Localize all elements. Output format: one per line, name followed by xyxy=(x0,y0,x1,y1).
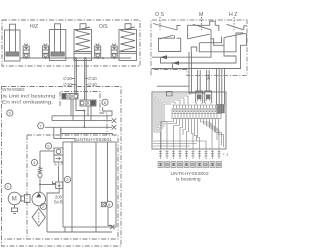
junction dots xyxy=(25,57,115,59)
svg-text:∅10: ∅10 xyxy=(63,76,72,81)
arrow A2 xyxy=(172,61,179,65)
enclosure control cabinet (electrical) xyxy=(151,20,247,75)
circle 9 xyxy=(7,110,13,116)
svg-text:4: 4 xyxy=(33,160,36,165)
pipe cylinder bus line xyxy=(20,57,131,59)
terminal dots xyxy=(173,111,219,112)
circle 1 xyxy=(5,183,11,189)
suction filter xyxy=(32,209,45,227)
svg-text:6: 6 xyxy=(108,202,111,207)
svg-text:UNTKHY093801: UNTKHY093801 xyxy=(76,137,112,142)
svg-text:9: 9 xyxy=(9,111,12,116)
tank line xyxy=(47,231,112,233)
svg-text:5: 5 xyxy=(47,144,50,149)
enclosure casing xyxy=(4,135,118,239)
pipe drain line xyxy=(61,134,113,136)
svg-text:H/Z: H/Z xyxy=(30,24,38,30)
valve group border step xyxy=(60,92,107,136)
enclosure cylinders box H/Z O/S xyxy=(2,20,140,66)
connector sockets row xyxy=(158,162,222,168)
svg-text:Is Unit incl besturing: Is Unit incl besturing xyxy=(2,93,56,98)
svg-text:M: M xyxy=(12,197,17,203)
pipes inside manifold xyxy=(72,142,112,232)
terminal pins top xyxy=(172,105,219,109)
switch S6 row2 xyxy=(224,34,243,38)
flow control valve V3 xyxy=(95,44,101,58)
terminal strip xyxy=(172,109,221,119)
svg-text:8: 8 xyxy=(104,100,107,105)
cylinder C3 spring return xyxy=(74,24,92,61)
cable loops inside box xyxy=(154,94,191,149)
terminal cells xyxy=(175,109,217,119)
pipe work line 1 xyxy=(52,115,112,117)
cartridge valve item5 xyxy=(54,148,63,182)
svg-text:BAR: BAR xyxy=(54,200,63,205)
wire across relay tops xyxy=(189,92,205,94)
circle 3 xyxy=(64,176,70,182)
manifold block 093801 xyxy=(63,142,116,227)
flow control valve V4 xyxy=(111,44,117,58)
cable gland xyxy=(167,92,173,96)
svg-text:∅10: ∅10 xyxy=(88,76,97,81)
circle 6 xyxy=(106,201,112,207)
svg-text:UNTKHY093802: UNTKHY093802 xyxy=(171,171,209,177)
plug item6 xyxy=(101,202,106,207)
svg-text:1: 1 xyxy=(7,184,10,189)
connector pins row xyxy=(159,150,221,159)
flow control valve V2 xyxy=(43,44,49,58)
pipe line 3 with coupling xyxy=(45,126,112,128)
drain under motor xyxy=(12,205,18,214)
svg-text:O/S: O/S xyxy=(99,24,108,30)
circle 7 xyxy=(38,123,44,129)
switch S5 row2 xyxy=(188,34,210,39)
coupling xyxy=(21,196,25,201)
solenoid valve B xyxy=(80,100,96,106)
circle 4 xyxy=(31,159,37,165)
pipe work line 2 with coupling xyxy=(52,120,112,122)
svg-text:+ 1: + 1 xyxy=(223,152,229,157)
check valve xyxy=(38,151,42,192)
pipes valves to manifold xyxy=(71,99,112,127)
svg-text:2: 2 xyxy=(42,204,45,209)
svg-text:UNTKHY093803: UNTKHY093803 xyxy=(2,87,25,92)
pump xyxy=(32,192,46,207)
relief valve item3 xyxy=(47,181,63,232)
cylinder C1 xyxy=(5,24,21,61)
pipe pump to item5 xyxy=(40,150,54,152)
switch S4 row2 xyxy=(160,35,174,39)
wiring below strip xyxy=(153,119,224,150)
strip right end block xyxy=(217,105,225,114)
svg-text:3: 3 xyxy=(66,177,69,182)
switch S3 (H Z row1) xyxy=(227,24,247,30)
switch S2 (M row1) xyxy=(193,24,211,30)
relay plug K2 xyxy=(205,91,212,105)
cylinder C2 xyxy=(49,24,65,61)
pipe elbow left xyxy=(51,116,53,121)
cable down to junction box xyxy=(189,52,225,105)
cable wire into box left xyxy=(157,85,189,87)
arrow A1 xyxy=(160,55,167,59)
svg-text:En incl omkasting.: En incl omkasting. xyxy=(2,100,53,105)
svg-text:Is besturing: Is besturing xyxy=(176,176,201,182)
wires control web xyxy=(152,21,247,68)
motor M xyxy=(8,192,21,205)
labels dia 10 xyxy=(63,76,97,87)
enclosure power unit 093803 xyxy=(2,87,122,247)
circle 8 xyxy=(102,99,108,105)
leader dashes below labels xyxy=(160,17,234,30)
cylinder C4 spring return xyxy=(119,24,137,61)
flow control valve V1 xyxy=(23,44,29,58)
pipe to relief xyxy=(40,184,56,186)
pipes down to power unit xyxy=(74,58,76,94)
switch S1 (O S row1) xyxy=(153,24,181,31)
svg-text:7: 7 xyxy=(40,123,43,128)
relay plug K1 xyxy=(196,91,203,105)
circle 5 xyxy=(45,143,51,149)
solenoid valve A xyxy=(62,94,78,100)
coupling X bottom xyxy=(110,225,115,230)
circle 2 xyxy=(40,203,46,209)
svg-text:H Z: H Z xyxy=(229,12,237,18)
junction box X1 xyxy=(152,92,226,149)
